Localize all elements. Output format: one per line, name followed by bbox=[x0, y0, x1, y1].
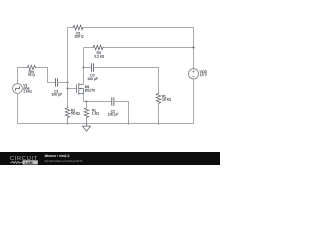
node C1/gate junction bbox=[66, 81, 68, 83]
wire R0 lead left bbox=[84, 47, 93, 49]
svg-text:dksono / sim2-2: dksono / sim2-2 bbox=[45, 154, 70, 158]
svg-text:100 Ω: 100 Ω bbox=[74, 35, 84, 39]
node R0/rail junction bbox=[192, 46, 194, 48]
resistor Rin bbox=[26, 65, 36, 69]
svg-text:100 µF: 100 µF bbox=[51, 93, 62, 97]
wire Rs to rail bbox=[86, 119, 88, 124]
capacitor C2 bbox=[112, 97, 114, 105]
svg-text:1 kHz: 1 kHz bbox=[23, 90, 32, 94]
node Rs/rail junction bbox=[85, 122, 87, 124]
svg-text:10 kΩ: 10 kΩ bbox=[162, 98, 171, 102]
node gate stub junction bbox=[66, 87, 68, 89]
wire V1 top to Rin bbox=[18, 68, 27, 85]
resistor R1 bbox=[72, 25, 84, 30]
wire Rin to C1 bbox=[36, 68, 55, 83]
voltage source VDD bbox=[188, 69, 198, 79]
wire C1 to gate node bbox=[58, 82, 68, 84]
wire R2 to rail bbox=[67, 119, 69, 124]
wire C2 to rail bbox=[114, 102, 129, 124]
wire drain vertical bbox=[83, 48, 85, 85]
resistor RL bbox=[156, 93, 161, 105]
svg-text:BS170: BS170 bbox=[85, 89, 95, 93]
resistor R0 bbox=[92, 45, 104, 50]
wire C3 to RL bbox=[94, 68, 159, 93]
wire R0 to right rail bbox=[104, 47, 193, 49]
svg-text:1 kΩ: 1 kΩ bbox=[92, 112, 100, 116]
footer url bbox=[45, 160, 83, 163]
node C2/rail junction bbox=[127, 122, 129, 124]
svg-text:15 V: 15 V bbox=[200, 73, 208, 77]
wire VDD bottom to rail bbox=[193, 79, 195, 124]
wire RL to rail bbox=[158, 105, 160, 124]
svg-text:3.2 kΩ: 3.2 kΩ bbox=[94, 54, 104, 58]
wire gate stub bbox=[68, 88, 77, 90]
wire R1 to right rail bbox=[84, 28, 194, 69]
logo LAB box bbox=[22, 160, 38, 164]
logo CIRCUIT text bbox=[10, 156, 38, 162]
wire source to C2 bbox=[84, 94, 112, 102]
node Rs junction bbox=[85, 100, 87, 102]
voltage source V1 bbox=[13, 84, 23, 94]
node RL/rail junction bbox=[157, 122, 159, 124]
svg-text:56 kΩ: 56 kΩ bbox=[71, 112, 80, 116]
wire R1 lead left bbox=[68, 27, 73, 29]
ground bbox=[83, 124, 91, 132]
wire gate node vertical bbox=[67, 28, 69, 107]
node drain/C3 junction bbox=[82, 66, 84, 68]
wire bottom rail bbox=[18, 123, 194, 125]
resistor Rs bbox=[84, 107, 89, 119]
svg-text:100 µF: 100 µF bbox=[87, 77, 98, 81]
footer bar bbox=[0, 152, 220, 165]
wire V1 bottom to rail bbox=[17, 93, 19, 123]
svg-text:LAB: LAB bbox=[25, 160, 33, 165]
svg-text:76 Ω: 76 Ω bbox=[28, 73, 36, 77]
logo resistor squiggle bbox=[10, 161, 22, 163]
transistor M1 bbox=[77, 83, 84, 95]
wire Rs stub bbox=[86, 102, 88, 107]
capacitor C1 bbox=[56, 78, 58, 86]
node R2/rail junction bbox=[66, 122, 68, 124]
resistor R2 bbox=[65, 107, 70, 119]
svg-text:http://circuitlab.com/c/6urym3: http://circuitlab.com/c/6urym32r76 bbox=[45, 160, 83, 163]
capacitor C3 bbox=[91, 63, 93, 71]
svg-text:100 µF: 100 µF bbox=[108, 113, 119, 117]
wire drain to C3 bbox=[84, 67, 92, 69]
